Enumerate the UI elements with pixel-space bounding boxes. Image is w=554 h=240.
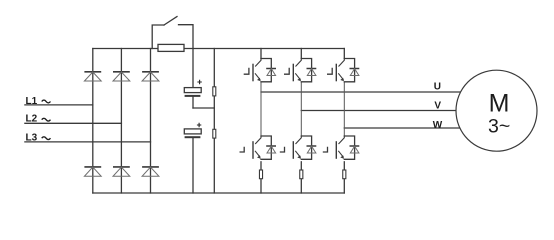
svg-text:3~: 3~ [488, 116, 510, 138]
svg-text:V: V [434, 101, 441, 112]
svg-text:L2: L2 [26, 114, 38, 125]
svg-text:L1: L1 [26, 96, 38, 107]
svg-text:L3: L3 [26, 132, 38, 143]
svg-text:U: U [434, 81, 441, 92]
svg-text:W: W [433, 120, 443, 131]
svg-text:M: M [489, 90, 510, 118]
